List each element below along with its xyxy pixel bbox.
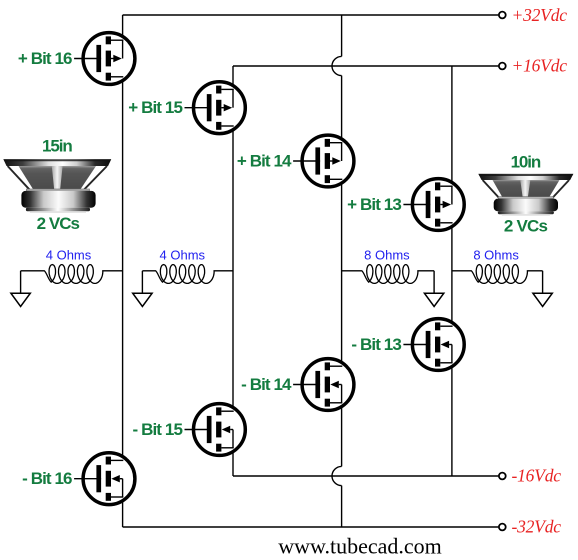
svg-text:+16Vdc: +16Vdc: [512, 56, 568, 76]
svg-text:- Bit 16: - Bit 16: [22, 469, 72, 488]
svg-text:- Bit 13: - Bit 13: [351, 335, 401, 354]
svg-text:2 VCs: 2 VCs: [504, 217, 548, 236]
svg-text:+ Bit 14: + Bit 14: [237, 151, 292, 170]
svg-text:- Bit 15: - Bit 15: [133, 420, 183, 439]
svg-text:+ Bit 15: + Bit 15: [128, 98, 182, 117]
svg-text:15in: 15in: [42, 137, 72, 156]
svg-text:4 Ohms: 4 Ohms: [160, 248, 206, 263]
svg-text:+ Bit 16: + Bit 16: [18, 49, 72, 68]
svg-text:+32Vdc: +32Vdc: [512, 5, 568, 25]
svg-text:10in: 10in: [511, 153, 541, 172]
svg-text:-16Vdc: -16Vdc: [512, 466, 562, 486]
svg-text:8 Ohms: 8 Ohms: [473, 247, 519, 262]
svg-text:2 VCs: 2 VCs: [37, 214, 80, 233]
svg-text:www.tubecad.com: www.tubecad.com: [278, 533, 442, 558]
svg-text:4 Ohms: 4 Ohms: [46, 248, 92, 263]
svg-text:- Bit 14: - Bit 14: [241, 375, 292, 394]
svg-text:-32Vdc: -32Vdc: [512, 517, 562, 537]
svg-text:+ Bit 13: + Bit 13: [347, 195, 401, 214]
svg-text:8 Ohms: 8 Ohms: [364, 248, 410, 263]
